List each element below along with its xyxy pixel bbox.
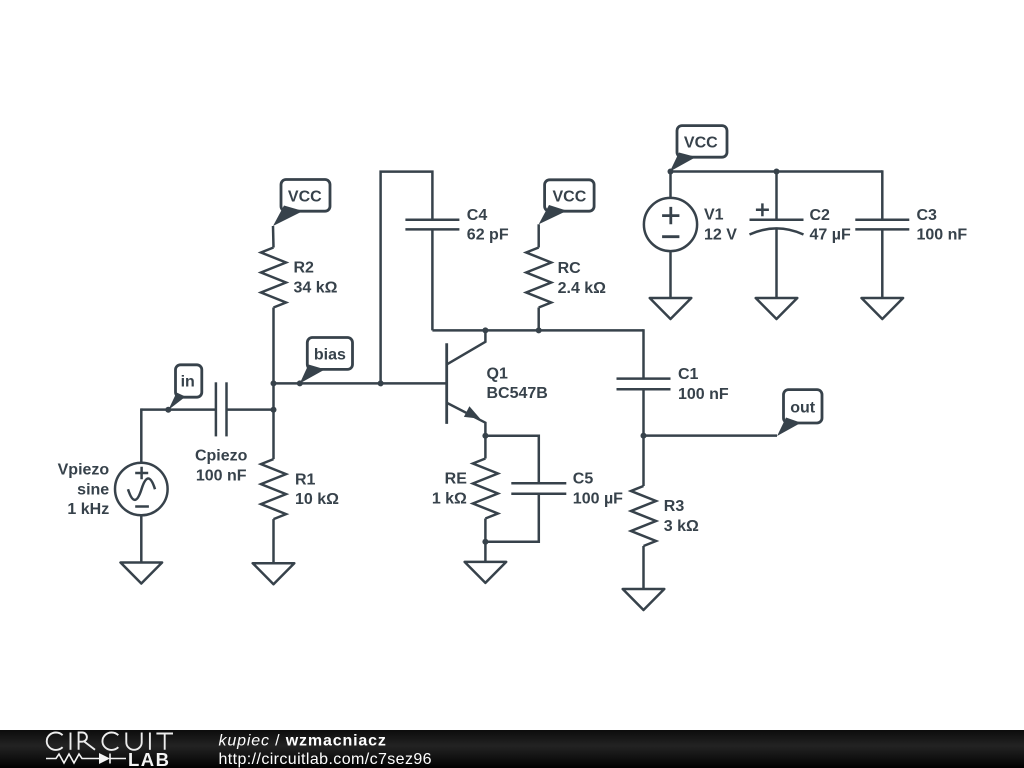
- svg-text:62 pF: 62 pF: [467, 227, 509, 244]
- wire R1 bottom: [272, 519, 275, 563]
- label V1 12 V: [704, 207, 737, 244]
- junction dot RE bottom: [482, 539, 488, 545]
- label C3 100 nF: [917, 207, 968, 244]
- wire bias horizontal: [274, 382, 447, 385]
- resistor RE: [473, 459, 498, 519]
- wire in horizontal: [141, 408, 216, 411]
- svg-text:http://circuitlab.com/c7sez96: http://circuitlab.com/c7sez96: [219, 751, 432, 768]
- svg-text:Q1: Q1: [487, 365, 508, 382]
- svg-text:sine: sine: [77, 481, 109, 498]
- capacitor C1: [617, 379, 671, 390]
- ground (RE): [465, 562, 507, 583]
- label C4 62 pF: [467, 207, 509, 244]
- capacitor C3: [855, 220, 909, 230]
- ground (C3): [862, 298, 904, 319]
- voltage source Vpiezo: [115, 463, 168, 516]
- wire C3 top stub: [881, 170, 884, 220]
- svg-text:kupiec / wzmacniacz: kupiec / wzmacniacz: [219, 733, 387, 750]
- resistor RC: [526, 248, 551, 308]
- svg-text:R1: R1: [295, 471, 316, 488]
- svg-text:VCC: VCC: [684, 134, 718, 151]
- wire RE top: [484, 436, 487, 459]
- svg-text:100 nF: 100 nF: [917, 227, 968, 244]
- label R3 3 kOhm: [664, 498, 699, 535]
- wire collector rail: [432, 329, 643, 332]
- wire R3 top: [642, 436, 645, 486]
- wire VCC to R2: [272, 226, 275, 248]
- wire C1 bottom: [642, 389, 645, 435]
- label Vpiezo sine 1 kHz: [58, 462, 110, 519]
- junction dot C1/R3/out: [641, 433, 647, 439]
- svg-text:C2: C2: [810, 207, 831, 224]
- svg-text:VCC: VCC: [553, 189, 587, 206]
- svg-text:1 kHz: 1 kHz: [67, 501, 109, 518]
- wire C3 bottom: [881, 229, 884, 298]
- svg-text:R3: R3: [664, 498, 685, 515]
- svg-text:VCC: VCC: [288, 188, 322, 205]
- wire VCC rail: [671, 170, 883, 173]
- svg-text:C4: C4: [467, 207, 488, 224]
- capacitor C5: [511, 483, 566, 493]
- svg-text:34 kΩ: 34 kΩ: [294, 280, 338, 297]
- svg-text:100 nF: 100 nF: [678, 386, 729, 403]
- ground (V1): [650, 298, 692, 319]
- junction dot Q1 collector: [482, 327, 488, 333]
- wire V1 bottom: [669, 251, 672, 298]
- wire bias column: [272, 383, 275, 459]
- label R2 34 kOhm: [294, 260, 338, 297]
- wire Vpiezo top: [140, 408, 143, 463]
- capacitor C2 polarized: [750, 203, 804, 234]
- label C2 47 uF: [810, 207, 851, 244]
- wire C2 bottom: [775, 230, 778, 299]
- svg-text:BC547B: BC547B: [487, 385, 548, 402]
- label C1 100 nF: [678, 366, 729, 403]
- label RC 2.4 kOhm: [558, 260, 607, 297]
- junction dot VCC rail left: [668, 169, 674, 175]
- wire RE bottom: [484, 519, 487, 562]
- wire R2 bottom: [272, 308, 275, 384]
- label Q1 BC547B: [487, 365, 548, 402]
- svg-text:12 V: 12 V: [704, 227, 737, 244]
- junction dot C4 branch: [378, 380, 384, 386]
- wire C1 top stub: [642, 329, 645, 378]
- label RE 1 kOhm: [432, 471, 467, 508]
- wire C4 branch up and over: [381, 172, 433, 384]
- svg-text:RE: RE: [445, 471, 468, 488]
- label Cpiezo 100 nF: [195, 448, 248, 485]
- resistor R2: [261, 248, 286, 308]
- wire V1 top: [669, 172, 672, 198]
- wire RC bottom: [537, 308, 540, 331]
- svg-text:R2: R2: [294, 260, 315, 277]
- wire Cpiezo to bias column: [227, 408, 274, 411]
- junction dot node in: [165, 407, 171, 413]
- capacitor C4: [405, 220, 459, 230]
- svg-text:100 µF: 100 µF: [573, 491, 623, 508]
- svg-text:V1: V1: [704, 207, 724, 224]
- junction dot C2 top: [774, 169, 780, 175]
- ground (R1): [253, 563, 295, 584]
- junction dot bias label: [297, 380, 303, 386]
- capacitor Cpiezo: [216, 382, 227, 436]
- ground (R3): [623, 589, 665, 610]
- resistor R1: [261, 459, 286, 519]
- node VCC label (R2): [273, 180, 330, 227]
- svg-text:1 kΩ: 1 kΩ: [432, 491, 467, 508]
- logo CIRCUIT: [47, 733, 173, 750]
- ground (Vpiezo): [121, 563, 163, 584]
- voltage source V1: [644, 198, 697, 251]
- transistor Q1: [447, 330, 486, 435]
- svg-text:LAB: LAB: [128, 749, 171, 768]
- svg-text:bias: bias: [314, 346, 346, 363]
- svg-text:2.4 kΩ: 2.4 kΩ: [558, 280, 607, 297]
- wire C4 bottom: [431, 229, 434, 330]
- wire C5 branch: [485, 436, 538, 542]
- svg-text:out: out: [790, 399, 816, 416]
- node out label: [777, 390, 822, 436]
- junction dot RC bottom: [536, 327, 542, 333]
- label C5 100 uF: [573, 471, 623, 508]
- junction dot R2/R1/bias: [271, 380, 277, 386]
- svg-text:47 µF: 47 µF: [810, 227, 851, 244]
- svg-text:Vpiezo: Vpiezo: [58, 462, 110, 479]
- resistor R3: [631, 486, 656, 546]
- label R1 10 kOhm: [295, 471, 339, 508]
- junction dot Q1 emitter: [482, 433, 488, 439]
- svg-text:Cpiezo: Cpiezo: [195, 448, 248, 465]
- svg-text:C1: C1: [678, 366, 699, 383]
- node in label: [168, 365, 202, 410]
- wire C2 top stub: [775, 172, 778, 220]
- wire out horizontal: [644, 434, 778, 437]
- svg-text:RC: RC: [558, 260, 582, 277]
- svg-text:C5: C5: [573, 471, 594, 488]
- svg-text:100 nF: 100 nF: [196, 467, 247, 484]
- svg-text:3 kΩ: 3 kΩ: [664, 518, 699, 535]
- node VCC label (RC): [539, 180, 594, 225]
- wire Vpiezo bottom: [140, 515, 143, 562]
- node bias label: [300, 338, 353, 384]
- logo squiggle: [46, 754, 126, 764]
- svg-text:in: in: [181, 373, 195, 390]
- node VCC label (V1): [670, 126, 727, 172]
- ground (C2): [756, 298, 798, 319]
- wire R3 bottom: [642, 546, 645, 589]
- logo diode: [99, 753, 110, 764]
- wire VCC to RC: [537, 224, 540, 247]
- svg-text:C3: C3: [917, 207, 938, 224]
- junction dot Cpiezo/R1: [271, 407, 277, 413]
- svg-text:10 kΩ: 10 kΩ: [295, 491, 339, 508]
